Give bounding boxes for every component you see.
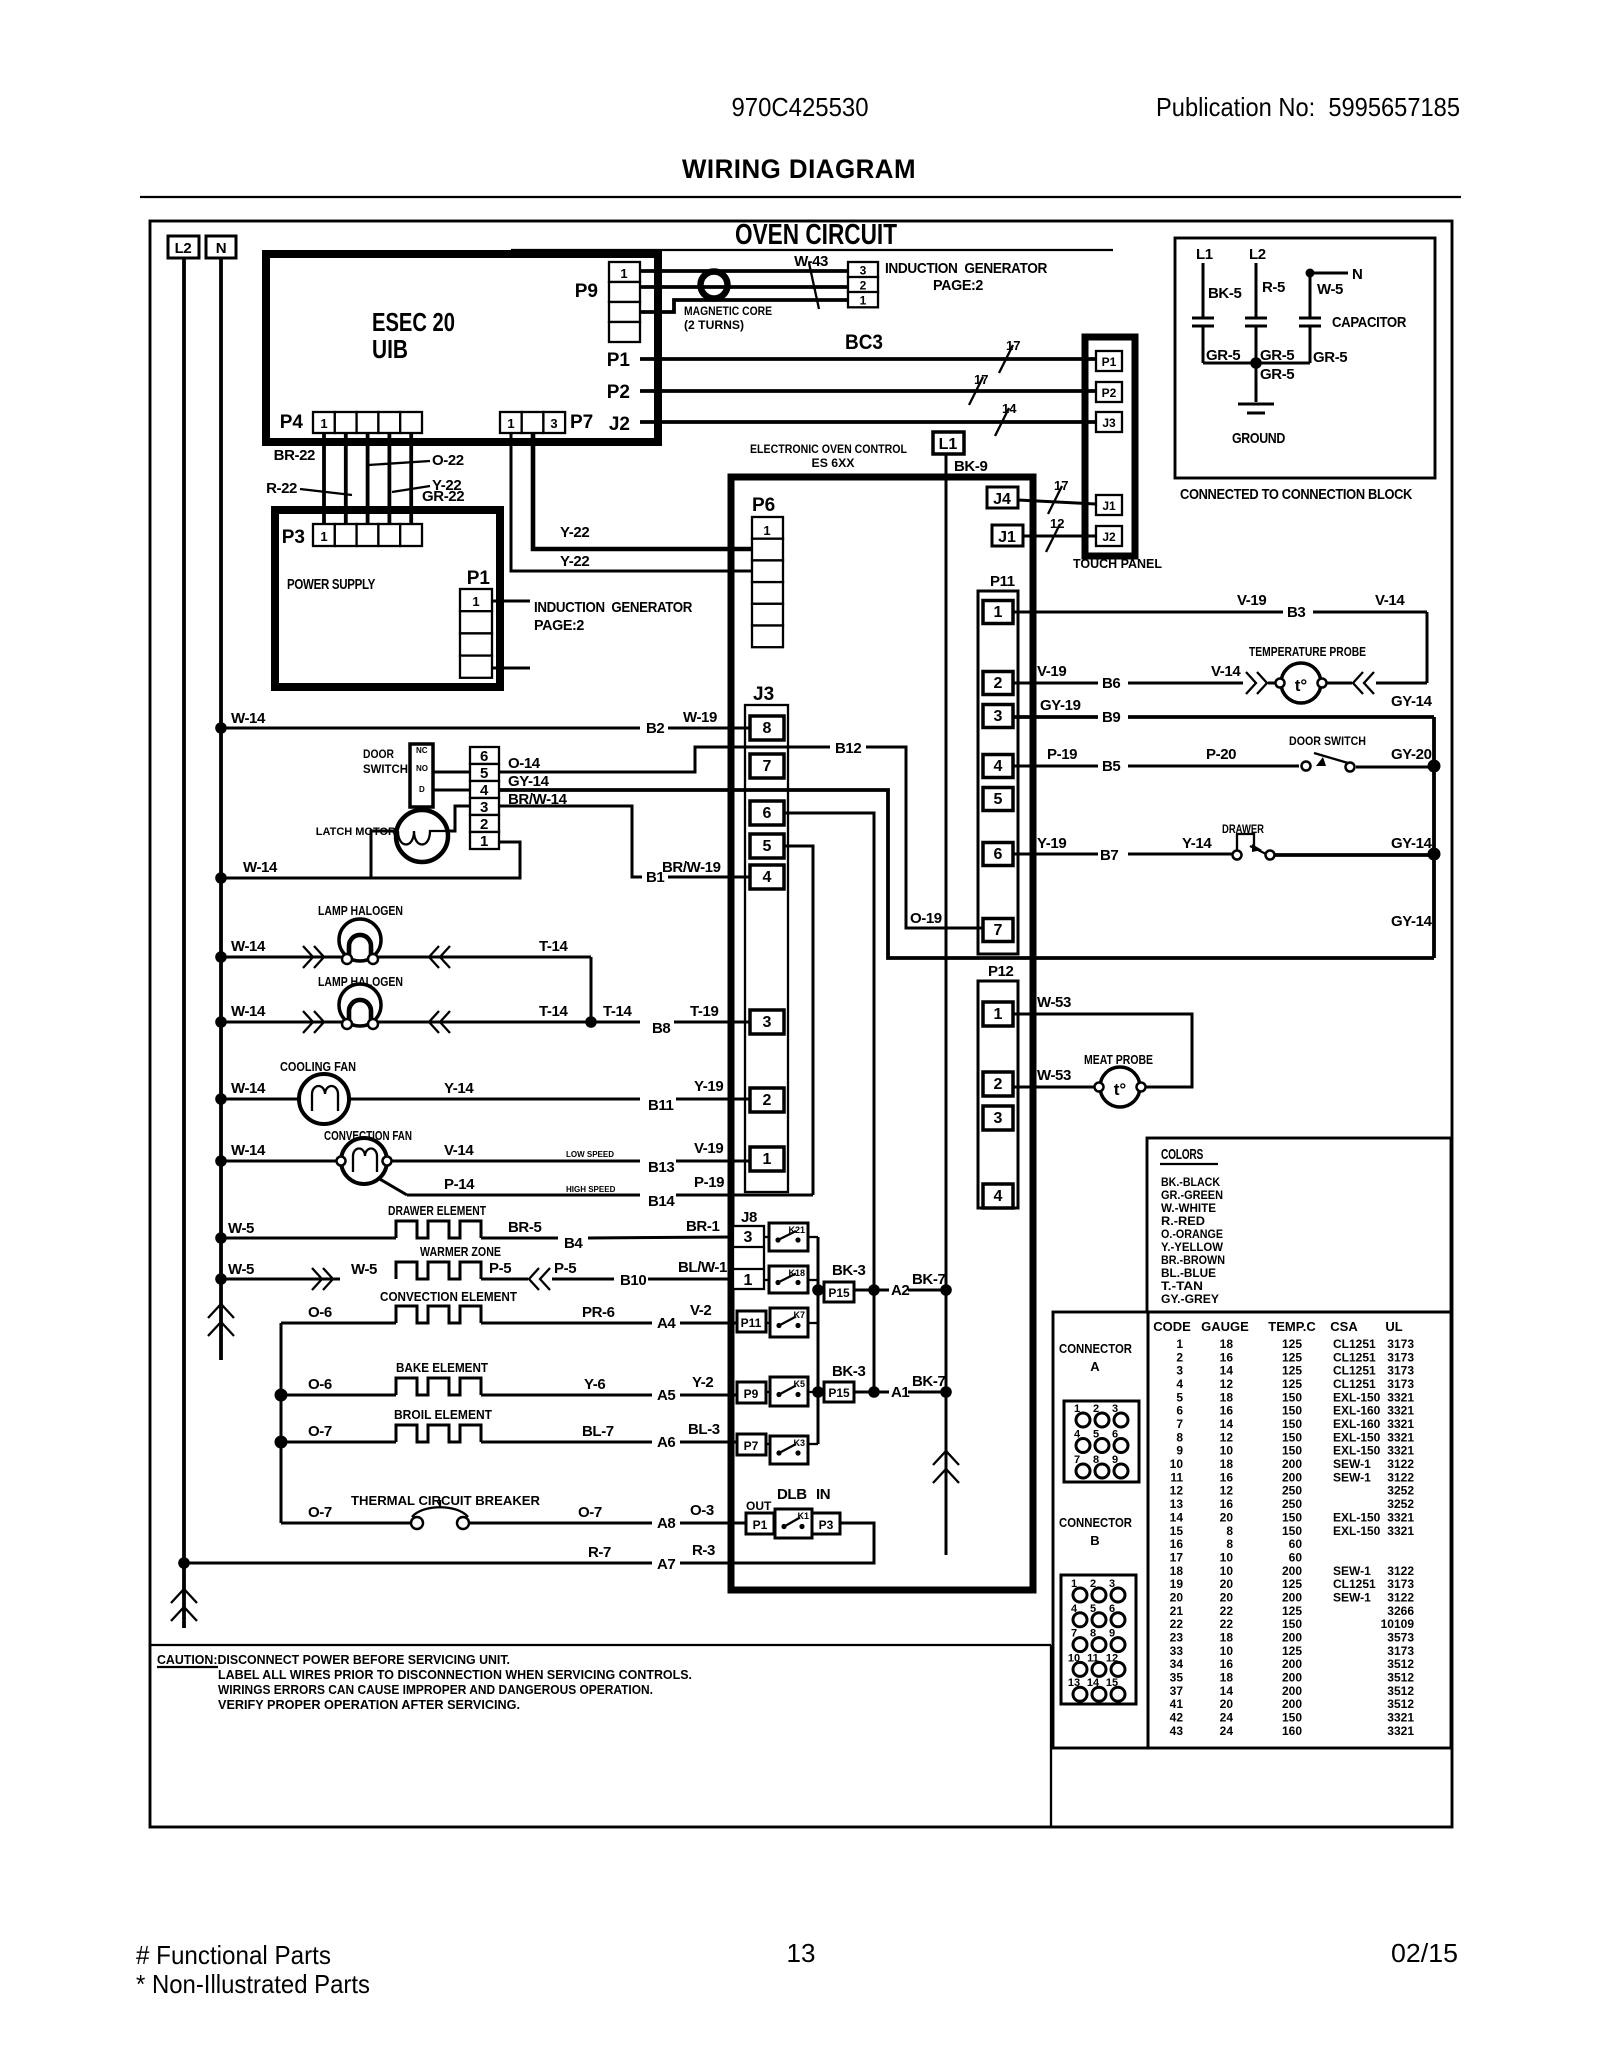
svg-text:7: 7 (1074, 1454, 1080, 1466)
connector P1 power supply (460, 568, 492, 678)
svg-text:16: 16 (1220, 1657, 1234, 1671)
module electronic oven control board (731, 477, 1033, 1590)
wire K7 to bus (808, 1322, 818, 1324)
svg-text:P3: P3 (819, 1518, 834, 1532)
svg-text:18: 18 (1220, 1671, 1234, 1685)
relay K1 (775, 1509, 812, 1538)
svg-text:1: 1 (1074, 1403, 1080, 1415)
wire W-14 lamp1 row (215, 938, 342, 968)
svg-text:L1: L1 (939, 436, 958, 453)
label Y-22 (392, 477, 461, 494)
svg-text:R-7: R-7 (588, 1544, 611, 1561)
svg-text:8: 8 (763, 720, 772, 737)
svg-text:T.-TAN: T.-TAN (1161, 1279, 1203, 1293)
svg-text:CAUTION:DISCONNECT POWER BEFOR: CAUTION:DISCONNECT POWER BEFORE SERVICIN… (157, 1652, 510, 1667)
wire L2 bus (182, 258, 186, 1628)
svg-text:10: 10 (1170, 1457, 1184, 1471)
svg-text:5: 5 (1093, 1429, 1099, 1441)
motor cooling fan (280, 1059, 356, 1124)
connector P12 (978, 963, 1018, 1208)
wire O-7 thermal breaker row (281, 1504, 411, 1523)
svg-text:3321: 3321 (1387, 1711, 1414, 1725)
wire P2 to touch panel (607, 372, 1096, 405)
svg-text:O-7: O-7 (578, 1504, 602, 1521)
wires P4 to P3 (324, 433, 411, 524)
svg-text:10: 10 (1068, 1652, 1080, 1664)
svg-text:10: 10 (1220, 1550, 1234, 1564)
connector chart box (1053, 1312, 1148, 1748)
label CONNECTOR B (1059, 1515, 1133, 1548)
pin P12-1 (983, 1002, 1013, 1026)
wire P1 to touch panel (607, 338, 1096, 373)
wire BL-7 A6 BL-3 to P7 relay (481, 1421, 737, 1451)
svg-text:19: 19 (1170, 1577, 1184, 1591)
svg-text:EXL-150: EXL-150 (1333, 1430, 1381, 1444)
svg-text:SEW-1: SEW-1 (1333, 1564, 1371, 1578)
svg-text:(2 TURNS): (2 TURNS) (684, 318, 744, 332)
svg-text:O-14: O-14 (508, 755, 541, 772)
svg-text:3321: 3321 (1387, 1430, 1414, 1444)
svg-text:J4: J4 (993, 491, 1011, 508)
wire P1-1 to induction generator (492, 599, 692, 634)
wire O-7 broil element row (275, 1423, 397, 1449)
svg-text:DOOR: DOOR (363, 747, 394, 761)
pin J3-5 (750, 834, 784, 858)
svg-text:CAPACITOR: CAPACITOR (1332, 314, 1406, 331)
svg-text:1: 1 (1176, 1337, 1183, 1351)
wire W-5 warmer zone row (215, 1261, 377, 1290)
svg-text:K1: K1 (797, 1511, 809, 1521)
svg-text:1: 1 (320, 416, 327, 431)
svg-text:V-2: V-2 (690, 1302, 711, 1319)
svg-text:Y-22: Y-22 (560, 553, 589, 570)
label CONNECTOR A (1059, 1341, 1133, 1374)
svg-text:Y-2: Y-2 (692, 1374, 713, 1391)
svg-text:GR-22: GR-22 (422, 488, 464, 505)
connector A pin grid (1064, 1401, 1139, 1482)
svg-text:O-7: O-7 (308, 1423, 332, 1440)
svg-text:3321: 3321 (1387, 1444, 1414, 1458)
pin P9 relay input (737, 1382, 766, 1403)
svg-text:12: 12 (1106, 1652, 1118, 1664)
svg-text:L2: L2 (1249, 246, 1266, 263)
svg-text:22: 22 (1220, 1617, 1234, 1631)
relay K18 (769, 1266, 808, 1293)
svg-text:TOUCH PANEL: TOUCH PANEL (1073, 556, 1162, 571)
svg-text:150: 150 (1282, 1617, 1302, 1631)
svg-text:P12: P12 (988, 963, 1014, 980)
svg-text:3: 3 (1176, 1364, 1183, 1378)
svg-text:OUT: OUT (746, 1499, 772, 1513)
svg-text:8: 8 (1176, 1430, 1183, 1444)
wire GY right bus (1428, 717, 1441, 958)
svg-text:L2: L2 (175, 240, 192, 257)
svg-text:W-43: W-43 (794, 253, 828, 270)
svg-text:150: 150 (1282, 1711, 1302, 1725)
svg-text:3321: 3321 (1387, 1724, 1414, 1738)
wire BR-5 B4 BR-1 to J8-3 (481, 1218, 734, 1252)
svg-text:17: 17 (1170, 1550, 1184, 1564)
svg-text:OVEN CIRCUIT: OVEN CIRCUIT (735, 219, 897, 251)
svg-text:t°: t° (1114, 1080, 1127, 1099)
svg-text:BROIL ELEMENT: BROIL ELEMENT (394, 1407, 492, 1422)
motor latch motor (316, 810, 448, 862)
lamp halogen 1 (318, 903, 403, 964)
svg-text:250: 250 (1282, 1497, 1302, 1511)
svg-text:GY-19: GY-19 (1040, 697, 1081, 714)
svg-text:5: 5 (763, 838, 772, 855)
svg-text:8: 8 (1090, 1628, 1096, 1640)
svg-text:7: 7 (763, 758, 772, 775)
svg-text:B11: B11 (648, 1097, 674, 1114)
svg-text:14: 14 (1220, 1417, 1234, 1431)
svg-text:ES 6XX: ES 6XX (812, 456, 855, 470)
wire gauge table box (1148, 1312, 1451, 1748)
connection block detail box (1175, 238, 1435, 478)
svg-text:CONNECTED TO CONNECTION BLOCK: CONNECTED TO CONNECTION BLOCK (1180, 486, 1412, 503)
svg-text:GY-20: GY-20 (1391, 746, 1432, 763)
wire gauge table header (1153, 1319, 1402, 1334)
svg-text:4: 4 (994, 758, 1003, 775)
pin P12-3 (983, 1106, 1013, 1130)
connector J3 (745, 684, 788, 1192)
svg-text:COLORS: COLORS (1161, 1146, 1203, 1163)
module POWER SUPPLY (275, 510, 500, 687)
wire BK-5 (1203, 263, 1241, 318)
svg-text:150: 150 (1282, 1390, 1302, 1404)
wire W-14 convection fan row (215, 1142, 337, 1167)
svg-text:60: 60 (1289, 1537, 1303, 1551)
svg-text:BK-3: BK-3 (832, 1262, 865, 1279)
svg-text:TEMPERATURE PROBE: TEMPERATURE PROBE (1249, 644, 1366, 659)
svg-text:P-5: P-5 (554, 1260, 576, 1277)
wire J4 to touch panel J1 (1018, 478, 1096, 514)
svg-text:150: 150 (1282, 1510, 1302, 1524)
svg-text:3173: 3173 (1387, 1350, 1414, 1364)
wire J8-1 to K18 (764, 1279, 769, 1281)
svg-text:3266: 3266 (1387, 1604, 1414, 1618)
wire B2 W-14 to J3-8 (215, 709, 750, 737)
svg-text:200: 200 (1282, 1697, 1302, 1711)
connector P6 (752, 495, 783, 647)
svg-text:SEW-1: SEW-1 (1333, 1591, 1371, 1605)
svg-text:Y-22: Y-22 (560, 524, 589, 541)
svg-text:BK-5: BK-5 (1208, 285, 1241, 302)
svg-text:13: 13 (787, 1938, 816, 1968)
svg-text:2: 2 (994, 675, 1003, 692)
svg-text:Y-19: Y-19 (1037, 835, 1066, 852)
svg-text:P7: P7 (744, 1439, 759, 1453)
svg-text:P4: P4 (280, 412, 304, 433)
svg-text:1: 1 (763, 523, 770, 538)
svg-text:3173: 3173 (1387, 1644, 1414, 1658)
title rule (140, 196, 1461, 198)
pin J3-4 (750, 865, 784, 889)
label O-22 (368, 452, 464, 469)
svg-text:VERIFY PROPER OPERATION AFTER: VERIFY PROPER OPERATION AFTER SERVICING. (218, 1697, 520, 1712)
svg-text:6: 6 (480, 748, 488, 765)
wire P15 A2 BK-7 (854, 1271, 952, 1299)
wire GR-5 bus to ground (1203, 357, 1310, 402)
wire Y-6 A5 Y-2 to P9 relay (481, 1374, 737, 1404)
svg-text:O-7: O-7 (308, 1504, 332, 1521)
wire P9-3 to BC3-1 (640, 300, 848, 312)
svg-text:12: 12 (1170, 1484, 1184, 1498)
svg-text:B2: B2 (646, 720, 664, 737)
svg-text:20: 20 (1170, 1591, 1184, 1605)
svg-text:2: 2 (860, 278, 867, 292)
svg-text:A1: A1 (891, 1384, 909, 1401)
svg-text:O-22: O-22 (432, 452, 464, 469)
svg-text:O.-ORANGE: O.-ORANGE (1161, 1227, 1223, 1241)
svg-text:Y-6: Y-6 (584, 1376, 605, 1393)
svg-text:BR/W-19: BR/W-19 (662, 859, 721, 876)
svg-text:3512: 3512 (1387, 1657, 1414, 1671)
wire W-14 latch motor loop (215, 842, 520, 884)
svg-text:200: 200 (1282, 1657, 1302, 1671)
wire Y-19 B7 Y-14 GY-14 from P11-6 (1013, 835, 1434, 864)
svg-text:10: 10 (1220, 1444, 1234, 1458)
svg-text:200: 200 (1282, 1631, 1302, 1645)
wire door switch D to connector-4 (433, 789, 470, 792)
pin P11-4 (983, 755, 1013, 778)
svg-text:GR-5: GR-5 (1206, 347, 1240, 364)
svg-text:150: 150 (1282, 1430, 1302, 1444)
svg-text:1: 1 (472, 594, 479, 609)
svg-text:THERMAL CIRCUIT BREAKER: THERMAL CIRCUIT BREAKER (351, 1493, 541, 1508)
svg-text:BR.-BROWN: BR.-BROWN (1161, 1253, 1225, 1267)
wire J3-6 to relay bus column (784, 813, 874, 1392)
svg-text:9: 9 (1112, 1454, 1118, 1466)
svg-text:17: 17 (1006, 338, 1020, 353)
svg-text:4: 4 (763, 869, 772, 886)
svg-text:W-5: W-5 (351, 1261, 377, 1278)
svg-text:EXL-150: EXL-150 (1333, 1444, 1381, 1458)
svg-text:GY.-GREY: GY.-GREY (1161, 1292, 1219, 1306)
relay K21 (769, 1223, 808, 1251)
svg-text:2: 2 (1093, 1403, 1099, 1415)
svg-text:1: 1 (763, 1151, 772, 1168)
continuation arrow N bus (208, 1304, 234, 1336)
svg-text:EXL-160: EXL-160 (1333, 1417, 1381, 1431)
svg-text:42: 42 (1170, 1711, 1184, 1725)
svg-text:LOW SPEED: LOW SPEED (566, 1150, 614, 1159)
svg-text:HIGH SPEED: HIGH SPEED (566, 1185, 616, 1194)
svg-text:3173: 3173 (1387, 1377, 1414, 1391)
svg-text:3: 3 (860, 263, 867, 277)
svg-text:CODE: CODE (1153, 1319, 1191, 1334)
connector B pin grid (1061, 1575, 1136, 1704)
svg-text:W-19: W-19 (683, 709, 717, 726)
svg-text:60: 60 (1289, 1550, 1303, 1564)
wire O-7 A8 O-3 to DLB P1 (469, 1502, 746, 1532)
svg-text:16: 16 (1220, 1350, 1234, 1364)
connector door switch 6-pin (470, 747, 499, 850)
svg-text:J2: J2 (609, 414, 630, 435)
svg-text:10: 10 (1220, 1644, 1234, 1658)
wire O-6 bake element row (275, 1376, 397, 1402)
svg-text:20: 20 (1220, 1510, 1234, 1524)
svg-text:B5: B5 (1102, 758, 1120, 775)
node L2 (168, 236, 199, 258)
svg-text:N: N (216, 240, 226, 257)
svg-text:250: 250 (1282, 1484, 1302, 1498)
svg-text:T-14: T-14 (539, 938, 568, 955)
capacitor symbols (1192, 314, 1406, 363)
svg-text:WARMER ZONE: WARMER ZONE (420, 1244, 501, 1259)
svg-text:18: 18 (1220, 1457, 1234, 1471)
svg-text:P-14: P-14 (444, 1176, 475, 1193)
svg-text:10: 10 (1220, 1564, 1234, 1578)
svg-text:BR-1: BR-1 (686, 1218, 719, 1235)
svg-text:150: 150 (1282, 1524, 1302, 1538)
svg-text:PAGE:2: PAGE:2 (534, 617, 584, 634)
pin P11-5 (983, 788, 1013, 811)
svg-text:14: 14 (1002, 401, 1017, 416)
svg-text:5: 5 (1090, 1603, 1096, 1615)
svg-text:16: 16 (1170, 1537, 1184, 1551)
svg-text:# Functional Parts: # Functional Parts (136, 1940, 331, 1970)
svg-text:41: 41 (1170, 1697, 1184, 1711)
svg-text:BK-3: BK-3 (832, 1363, 865, 1380)
svg-text:35: 35 (1170, 1671, 1184, 1685)
svg-text:INDUCTION GENERATOR: INDUCTION GENERATOR (885, 260, 1048, 277)
svg-text:9: 9 (1176, 1444, 1183, 1458)
breaker thermal circuit breaker (351, 1493, 541, 1529)
svg-text:11: 11 (1087, 1652, 1099, 1664)
pin P11-6 (983, 843, 1013, 866)
svg-text:3512: 3512 (1387, 1684, 1414, 1698)
wire P11 to K7 (766, 1322, 770, 1324)
svg-text:8: 8 (1093, 1454, 1099, 1466)
svg-text:34: 34 (1170, 1657, 1184, 1671)
svg-text:TEMP.C: TEMP.C (1268, 1319, 1316, 1334)
wire W-53 from P12-1 (1013, 994, 1192, 1087)
svg-text:O-6: O-6 (308, 1376, 332, 1393)
svg-text:GR-5: GR-5 (1260, 347, 1294, 364)
svg-text:B12: B12 (835, 740, 861, 757)
svg-text:P-20: P-20 (1206, 746, 1236, 763)
heater broil element (394, 1407, 492, 1442)
svg-text:5: 5 (994, 791, 1003, 808)
svg-text:O-19: O-19 (910, 910, 942, 927)
pin P12-2 (983, 1072, 1013, 1096)
svg-text:W-14: W-14 (231, 1003, 266, 1020)
wire P-19 B5 P-20 GY-20 from P11-4 (1013, 746, 1434, 775)
svg-text:W-14: W-14 (231, 1142, 266, 1159)
svg-text:8: 8 (1226, 1524, 1233, 1538)
switch door switch left (363, 744, 433, 807)
wire J8-3 to K21 (764, 1236, 769, 1238)
svg-text:J8: J8 (741, 1209, 757, 1226)
svg-text:1: 1 (480, 833, 488, 850)
wire PR-6 A4 V-2 to P11 relay (481, 1302, 737, 1332)
svg-text:W.-WHITE: W.-WHITE (1161, 1201, 1216, 1215)
continuation arrow L2 bus (171, 1589, 197, 1621)
svg-text:160: 160 (1282, 1724, 1302, 1738)
svg-text:N: N (1352, 266, 1362, 283)
pin P11 relay input (737, 1311, 766, 1332)
svg-text:SEW-1: SEW-1 (1333, 1470, 1371, 1484)
svg-text:CONVECTION ELEMENT: CONVECTION ELEMENT (380, 1289, 517, 1304)
svg-text:33: 33 (1170, 1644, 1184, 1658)
svg-text:37: 37 (1170, 1684, 1184, 1698)
svg-text:1: 1 (994, 1006, 1003, 1023)
wire J2 to touch panel J3 (609, 401, 1096, 436)
svg-text:P9: P9 (744, 1387, 759, 1401)
svg-text:18: 18 (1220, 1390, 1234, 1404)
svg-text:W-14: W-14 (231, 1080, 266, 1097)
svg-text:3: 3 (994, 708, 1003, 725)
svg-text:15: 15 (1106, 1677, 1118, 1689)
svg-text:1: 1 (1071, 1578, 1077, 1590)
wire latch motor left leg (371, 831, 396, 878)
svg-text:T-19: T-19 (690, 1003, 718, 1020)
svg-text:J2: J2 (1102, 530, 1116, 544)
svg-text:CONNECTOR: CONNECTOR (1059, 1341, 1133, 1356)
pin P11-1 (983, 601, 1013, 624)
svg-text:10109: 10109 (1381, 1617, 1415, 1631)
svg-text:18: 18 (1170, 1564, 1184, 1578)
svg-text:200: 200 (1282, 1591, 1302, 1605)
pin P12-4 (983, 1184, 1013, 1208)
svg-text:B13: B13 (648, 1159, 674, 1176)
svg-text:15: 15 (1170, 1524, 1184, 1538)
svg-text:UL: UL (1385, 1319, 1402, 1334)
svg-text:6: 6 (994, 846, 1003, 863)
svg-text:J1: J1 (1102, 499, 1116, 513)
svg-text:2: 2 (480, 816, 488, 833)
svg-text:125: 125 (1282, 1577, 1302, 1591)
svg-text:3252: 3252 (1387, 1497, 1414, 1511)
lamp halogen 2 (318, 974, 403, 1029)
wire GY-14 from connector-4 (499, 773, 1434, 958)
wire P-5 B10 BL/W-1 to J8-1 (481, 1259, 734, 1290)
wire P9-2 to BC3-2 (640, 285, 848, 289)
svg-text:INDUCTION GENERATOR: INDUCTION GENERATOR (534, 599, 692, 616)
svg-text:16: 16 (1220, 1404, 1234, 1418)
wire W-53 from P12-2 (1013, 1067, 1095, 1087)
svg-text:200: 200 (1282, 1684, 1302, 1698)
wire K21 to bus (808, 1236, 818, 1238)
svg-text:V-19: V-19 (694, 1140, 723, 1157)
svg-text:PAGE:2: PAGE:2 (933, 277, 983, 294)
pin P7 relay input (737, 1434, 766, 1455)
switch door switch right (1289, 734, 1366, 772)
svg-text:P2: P2 (1102, 386, 1117, 400)
motor convection fan (324, 1128, 412, 1184)
svg-text:3573: 3573 (1387, 1631, 1414, 1645)
svg-text:EXL-150: EXL-150 (1333, 1390, 1381, 1404)
wire V-19 B6 V-14 from P11-2 (1013, 663, 1276, 694)
svg-text:DRAWER ELEMENT: DRAWER ELEMENT (388, 1203, 486, 1218)
svg-text:L1: L1 (1196, 246, 1213, 263)
svg-text:A6: A6 (657, 1434, 675, 1451)
svg-text:POWER SUPPLY: POWER SUPPLY (287, 576, 375, 593)
wire V-19 B3 V-14 from P11-1 (1013, 592, 1427, 683)
svg-text:14: 14 (1087, 1677, 1100, 1689)
connector J1 eoc (992, 525, 1023, 546)
svg-text:DOOR SWITCH: DOOR SWITCH (1289, 734, 1366, 748)
connector P4 (280, 412, 422, 433)
svg-text:12: 12 (1220, 1377, 1234, 1391)
svg-text:7: 7 (1176, 1417, 1183, 1431)
wire W-5 (1310, 273, 1343, 318)
label R-22 (266, 480, 352, 497)
svg-text:14: 14 (1170, 1510, 1184, 1524)
svg-text:125: 125 (1282, 1337, 1302, 1351)
svg-text:22: 22 (1220, 1604, 1234, 1618)
